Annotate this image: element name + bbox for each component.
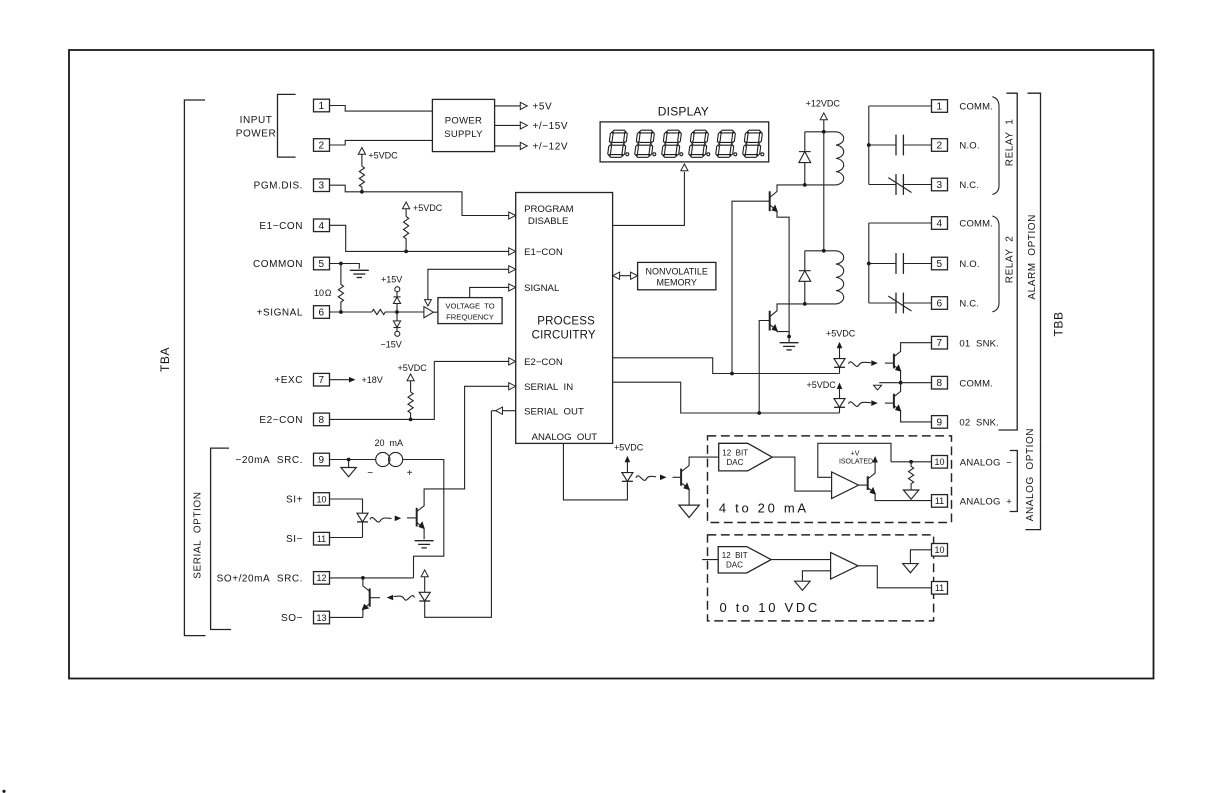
N.C. contact relay1	[869, 184, 896, 186]
svg-text:ALARM OPTION: ALARM OPTION	[1027, 214, 1038, 300]
svg-text:8: 8	[318, 415, 324, 426]
optocoupler LED D-SI	[357, 513, 368, 522]
voltage to frequency box	[438, 298, 502, 324]
node junction drive A	[730, 372, 734, 376]
wire Q1 base riser	[732, 201, 770, 373]
wire current source to SO+ line	[403, 460, 444, 578]
N.O. contact relay2	[869, 263, 896, 265]
svg-text:10 Ω: 10 Ω	[314, 288, 332, 298]
ground (COMMON)	[350, 270, 369, 277]
terminal 4 (TBA)	[314, 219, 330, 232]
wire to terminal 1 COMM	[869, 105, 932, 107]
wire terminal 10 to ground	[910, 550, 931, 563]
svg-text:10: 10	[316, 494, 326, 504]
stray mark	[2, 790, 5, 793]
terminal 8 (TBA)	[314, 413, 330, 426]
svg-text:SERIAL IN: SERIAL IN	[524, 382, 573, 393]
svg-text:VOLTAGE TO: VOLTAGE TO	[445, 301, 494, 310]
svg-text:INPUT: INPUT	[240, 115, 273, 126]
transistor Q2 (relay2 driver)	[769, 311, 771, 331]
svg-text:+12VDC: +12VDC	[806, 98, 841, 108]
svg-text:4: 4	[318, 221, 324, 232]
wire process box to display	[613, 172, 685, 226]
svg-text:+5VDC: +5VDC	[413, 203, 443, 213]
svg-text:5: 5	[318, 259, 324, 270]
svg-text:4: 4	[936, 219, 942, 230]
node junction T3/R1	[360, 190, 364, 194]
terminal 5 (TBA)	[314, 257, 330, 270]
node junction T8/R4	[409, 418, 413, 422]
flyback diode D2	[799, 270, 811, 272]
driver transistor Q-AN	[680, 469, 682, 486]
terminal 6 (TBB)	[932, 297, 948, 310]
output amp A2	[832, 472, 859, 499]
border frame	[69, 50, 1154, 679]
wire V2F output to SIGNAL input	[433, 311, 438, 313]
terminal 12 (TBA)	[314, 572, 330, 585]
svg-text:ISOLATED: ISOLATED	[839, 458, 873, 465]
wire terminal2 to power supply	[330, 140, 433, 145]
output transistor Q-SO	[369, 588, 371, 606]
svg-text:SERIAL OUT: SERIAL OUT	[524, 406, 584, 417]
seven-segment digits	[607, 130, 763, 157]
resistor R1 pull-up	[359, 166, 364, 192]
terminal 11 (4-20mA)	[932, 495, 948, 508]
-15V terminal circle	[395, 331, 400, 336]
node junction T6/10ohm	[339, 310, 343, 314]
svg-text:N.O.: N.O.	[959, 259, 979, 270]
terminal 13 (TBA)	[314, 611, 330, 624]
+/-12V output wire and arrow	[495, 145, 521, 147]
wire amp top to process box (3rd input)	[428, 269, 510, 300]
svg-text:6: 6	[318, 308, 324, 319]
svg-text:N.C.: N.C.	[959, 180, 979, 191]
TBA bracket	[184, 100, 205, 636]
resistor R3 series input	[372, 309, 397, 314]
analog ground triangle (0-10V)	[903, 564, 918, 573]
current source 20mA (two circles)	[376, 452, 390, 466]
phototransistor Q-O1	[893, 354, 895, 369]
arrowhead into amp top	[425, 300, 432, 306]
output transistor Q-420	[867, 476, 869, 490]
+5VDC supply arrow (R2)	[405, 208, 407, 217]
svg-text:10: 10	[934, 545, 944, 555]
node junction emitter/COMM	[899, 381, 903, 385]
svg-text:DISABLE: DISABLE	[528, 216, 569, 227]
node +12V/relay2 top	[822, 249, 826, 253]
terminal 10 (0-10V)	[932, 544, 948, 557]
light arrow analog	[636, 476, 656, 481]
terminal 6 (TBA)	[314, 306, 330, 319]
analog ground triangle (sense)	[903, 490, 918, 499]
svg-text:RELAY 2: RELAY 2	[1005, 236, 1016, 284]
light arrow 01	[849, 362, 872, 367]
svg-text:TBB: TBB	[1052, 311, 1066, 336]
wire SI+ terminal10 to LED	[330, 499, 363, 513]
node +12V/relay1 top	[822, 130, 826, 134]
svg-text:SUPPLY: SUPPLY	[444, 129, 483, 140]
svg-text:TBA: TBA	[158, 347, 172, 372]
bidirectional arrow process/memory	[613, 275, 638, 277]
wire to ANALOG - terminal	[891, 461, 932, 463]
wire ANALOG OUT to LED driver	[563, 443, 627, 500]
SERIAL OUT wire and left arrowhead	[491, 410, 515, 412]
svg-text:6: 6	[936, 299, 942, 310]
wire process out A (relay1 / 01SNK drive)	[613, 358, 840, 374]
relay1 contact common line	[868, 106, 870, 185]
light arrow SO	[394, 596, 415, 601]
wire E2-CON terminal8 to process box	[330, 361, 510, 419]
svg-text:NONVOLATILE: NONVOLATILE	[646, 267, 708, 277]
svg-text:+/−12V: +/−12V	[533, 141, 569, 152]
svg-text:ANALOG OUT: ANALOG OUT	[532, 432, 598, 443]
svg-text:02 SNK.: 02 SNK.	[959, 418, 999, 429]
terminal 4 (TBB)	[932, 217, 948, 230]
svg-text:+EXC: +EXC	[274, 375, 303, 386]
svg-text:+18V: +18V	[362, 375, 383, 385]
svg-text:SERIAL OPTION: SERIAL OPTION	[193, 492, 204, 579]
wire DAC2 to amp A3	[771, 559, 831, 561]
power supply box U-PS	[432, 99, 494, 151]
RELAY 2 brace	[992, 216, 999, 312]
terminal 11 (TBA)	[314, 532, 330, 545]
svg-text:12: 12	[316, 573, 326, 583]
svg-text:3: 3	[936, 180, 942, 191]
node junction drive B	[757, 411, 761, 415]
INPUT POWER bracket	[278, 94, 296, 157]
svg-text:E1−CON: E1−CON	[259, 221, 303, 232]
svg-text:PROGRAM: PROGRAM	[524, 204, 574, 215]
svg-text:E2−CON: E2−CON	[259, 415, 303, 426]
svg-text:SI−: SI−	[286, 534, 303, 545]
dashed box 4-20mA option	[708, 436, 952, 523]
dashed box 0-10VDC option	[708, 535, 934, 621]
analog ground triangle (T9)	[348, 460, 350, 468]
LED D-AN with +5VDC arrow	[625, 456, 631, 463]
svg-text:9: 9	[936, 417, 942, 428]
svg-text:−: −	[367, 468, 373, 479]
SERIAL OPTION bracket	[211, 448, 231, 629]
svg-text:0 to 10 VDC: 0 to 10 VDC	[720, 600, 821, 615]
display box	[600, 122, 769, 162]
svg-text:−20mA SRC.: −20mA SRC.	[236, 455, 303, 466]
+15V terminal circle	[395, 287, 400, 292]
wire COMMON terminal5	[330, 264, 360, 269]
wire SO+/20mA terminal12	[330, 577, 414, 579]
svg-text:E1−CON: E1−CON	[524, 247, 563, 258]
RELAY 1 brace	[992, 97, 999, 195]
light arrow 02	[849, 402, 872, 407]
wire R3 to buffer	[397, 311, 424, 313]
terminal 5 (TBB)	[932, 257, 948, 270]
svg-text:2: 2	[936, 141, 942, 152]
svg-text:+15V: +15V	[381, 274, 402, 284]
svg-text:DAC: DAC	[726, 561, 743, 570]
diode D3 clamp to +15V	[396, 304, 398, 313]
node relay2 bottom	[803, 302, 807, 306]
ground (relay drivers)	[788, 337, 790, 343]
ANALOG-/+ bracket	[1010, 451, 1018, 512]
wire DAC1 to amp	[772, 457, 831, 491]
wire to terminal 4 COMM	[869, 222, 932, 224]
relay2 contact common line	[868, 223, 870, 303]
wire PGM.DIS terminal3 to process box	[330, 185, 510, 215]
wire process out B (relay2 / 02SNK drive)	[613, 382, 840, 413]
svg-text:+5VDC: +5VDC	[368, 151, 398, 161]
12 BIT DAC 2	[702, 559, 718, 561]
svg-text:PROCESS: PROCESS	[537, 316, 595, 328]
svg-text:ANALOG −: ANALOG −	[960, 457, 1012, 468]
node relay1 bottom	[803, 183, 807, 187]
svg-text:SO+/20mA SRC.: SO+/20mA SRC.	[217, 573, 303, 584]
svg-text:+5VDC: +5VDC	[614, 443, 644, 453]
wire COMM terminal 8	[879, 382, 931, 384]
node junction T9	[347, 458, 351, 462]
node junction T5	[339, 262, 343, 266]
terminal 3 (TBA)	[314, 179, 330, 192]
svg-text:+V: +V	[851, 450, 860, 457]
terminal 1 (TBB)	[932, 100, 948, 113]
svg-text:RELAY 1: RELAY 1	[1005, 119, 1016, 167]
svg-text:5: 5	[936, 259, 942, 270]
svg-text:ANALOG +: ANALOG +	[960, 497, 1012, 508]
common return arrow (small)	[874, 385, 882, 390]
terminal 10 (TBA)	[314, 493, 330, 506]
svg-text:ANALOG OPTION: ANALOG OPTION	[1025, 428, 1036, 521]
svg-text:1: 1	[936, 102, 942, 113]
resistor 10 ohm	[338, 264, 343, 313]
output amp A3	[831, 553, 858, 580]
svg-text:20 mA: 20 mA	[375, 438, 404, 448]
TBB bracket	[1028, 93, 1041, 442]
N.C. contact relay2	[869, 302, 896, 304]
node junction diode clamp	[395, 310, 399, 314]
terminal 9 (TBB)	[932, 416, 948, 429]
wire diode D1 branch	[804, 132, 806, 185]
svg-text:7: 7	[318, 375, 324, 386]
resistor R4 pull-up	[408, 392, 413, 420]
svg-text:+5VDC: +5VDC	[398, 363, 428, 373]
wire SO- terminal13	[330, 616, 363, 618]
node junction T4/R2	[404, 250, 408, 254]
svg-text:11: 11	[317, 534, 326, 544]
svg-text:3: 3	[318, 181, 324, 192]
svg-text:E2−CON: E2−CON	[524, 357, 563, 368]
terminal 11 (0-10V)	[932, 582, 948, 595]
svg-text:PGM.DIS.: PGM.DIS.	[254, 181, 303, 192]
terminal 3 (TBB)	[932, 178, 948, 191]
ground (SI emitter)	[415, 541, 434, 548]
svg-text:+/−15V: +/−15V	[533, 121, 569, 132]
N.O. contact relay1	[869, 144, 896, 146]
node emitter junction	[787, 335, 791, 339]
12 BIT DAC 1	[719, 443, 773, 471]
svg-text:POWER: POWER	[445, 116, 482, 127]
process circuitry box U-MAIN	[516, 193, 613, 444]
svg-text:CIRCUITRY: CIRCUITRY	[532, 329, 596, 341]
flyback diode D1	[799, 151, 811, 153]
terminal 7 (TBA)	[314, 373, 330, 386]
svg-text:01 SNK.: 01 SNK.	[959, 338, 999, 349]
buffer amp A1	[424, 307, 434, 318]
diode D4 clamp to -15V	[396, 312, 398, 321]
svg-text:9: 9	[318, 455, 324, 466]
nonvolatile memory box	[638, 262, 716, 289]
transistor Q1 (relay1 driver)	[769, 191, 771, 211]
wire terminal1 to power supply	[330, 106, 433, 112]
ALARM OPTION bracket	[999, 93, 1018, 430]
ANALOG OPTION bracket	[1026, 442, 1041, 529]
svg-text:SI+: SI+	[286, 495, 303, 506]
phototransistor Q-SI	[416, 508, 418, 527]
resistor R2 pull-up	[404, 217, 409, 252]
wire +EXC terminal7 to +18V	[330, 379, 350, 381]
svg-text:DAC: DAC	[727, 458, 744, 467]
sense resistor R5	[909, 462, 914, 490]
svg-text:+5VDC: +5VDC	[807, 380, 837, 390]
terminal 9 (TBA)	[314, 453, 330, 466]
wire amp A3 to terminal 11	[858, 566, 932, 588]
+/-15V output wire and arrow	[495, 124, 521, 126]
light arrow SI	[370, 517, 392, 522]
svg-text:−15V: −15V	[381, 339, 402, 349]
svg-text:4 to 20 mA: 4 to 20 mA	[719, 500, 809, 515]
svg-text:+5V: +5V	[533, 101, 553, 112]
relay 1 coil K1	[805, 132, 844, 185]
svg-text:COMM.: COMM.	[959, 219, 993, 230]
wire -20mA SRC terminal9 to current source	[330, 459, 376, 461]
analog ground triangle (driver)	[679, 505, 699, 517]
svg-text:7: 7	[936, 338, 942, 349]
node junction T12	[361, 576, 365, 580]
+5V output wire and arrow	[495, 105, 521, 107]
svg-text:2: 2	[318, 141, 324, 152]
wire diode D2 branch	[804, 251, 806, 304]
svg-text:N.C.: N.C.	[959, 299, 979, 310]
svg-text:COMM.: COMM.	[959, 378, 993, 389]
terminal 7 (TBB)	[932, 336, 948, 349]
wire E1-CON terminal4 to process box	[330, 225, 510, 251]
terminal 2 (TBB)	[932, 139, 948, 152]
svg-text:FREQUENCY: FREQUENCY	[446, 312, 494, 321]
svg-text:13: 13	[316, 613, 326, 623]
svg-text:+: +	[407, 468, 413, 479]
svg-text:11: 11	[935, 583, 944, 593]
terminal 10 (4-20mA)	[932, 456, 948, 469]
svg-text:8: 8	[936, 378, 942, 389]
terminal 8 (TBB)	[932, 376, 948, 389]
optocoupler LED D-SO with +V arrow	[421, 570, 428, 577]
svg-text:POWER: POWER	[236, 129, 277, 140]
wire Q2 base riser	[759, 321, 770, 414]
svg-text:COMM.: COMM.	[959, 102, 993, 113]
feedback loop wire	[818, 443, 891, 477]
+5VDC supply arrow (R4)	[410, 380, 412, 392]
svg-text:DISPLAY: DISPLAY	[658, 105, 709, 119]
svg-text:MEMORY: MEMORY	[657, 278, 697, 288]
svg-text:SO−: SO−	[281, 613, 303, 624]
LED D-O2 with +5VDC arrow	[837, 383, 843, 390]
terminal 1 (TBA)	[314, 99, 330, 112]
svg-text:1: 1	[318, 101, 324, 112]
svg-text:10: 10	[934, 457, 944, 467]
svg-text:COMMON: COMMON	[253, 259, 303, 270]
svg-text:12 BIT: 12 BIT	[722, 551, 748, 560]
wire SI- terminal11	[330, 537, 363, 539]
+5VDC supply arrow (R1)	[361, 154, 363, 167]
amp ground stub	[802, 571, 830, 581]
svg-text:+5VDC: +5VDC	[826, 328, 856, 338]
LED D-O1 with +5VDC arrow	[837, 342, 843, 349]
svg-text:11: 11	[935, 496, 944, 506]
input arrowheads on process box	[509, 212, 516, 219]
svg-text:+SIGNAL: +SIGNAL	[257, 308, 303, 319]
phototransistor Q-O2	[893, 394, 895, 409]
svg-text:SIGNAL: SIGNAL	[524, 283, 560, 294]
terminal 2 (TBA)	[314, 139, 330, 152]
node junction sense resistor	[909, 460, 913, 464]
wire +SIGNAL terminal6	[330, 311, 372, 313]
svg-text:12 BIT: 12 BIT	[722, 448, 748, 457]
relay 2 coil K2	[805, 251, 844, 304]
svg-text:N.O.: N.O.	[959, 141, 979, 152]
